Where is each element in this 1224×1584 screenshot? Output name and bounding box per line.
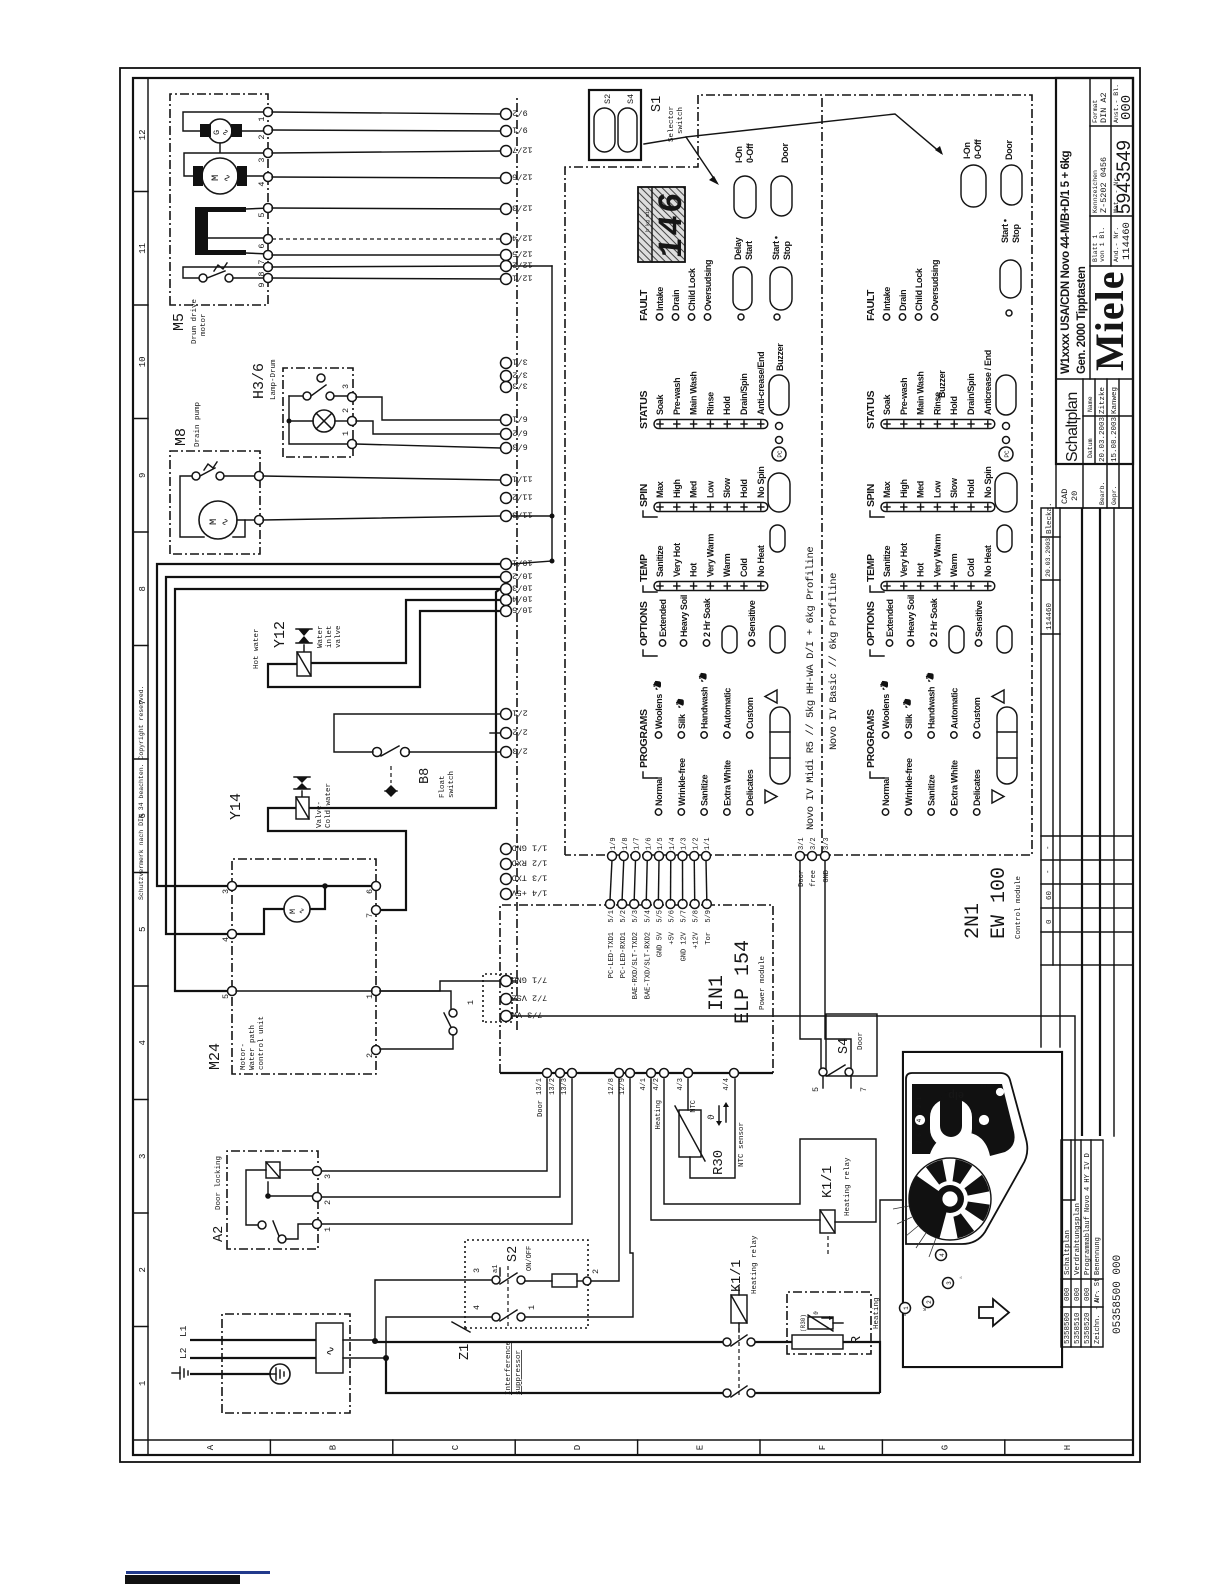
elp circled position numbers (900, 1303, 911, 1314)
scan artifact blue line (126, 1571, 270, 1574)
svg-text:ϑ: ϑ (706, 1114, 717, 1120)
svg-text:1: 1 (527, 1305, 537, 1310)
Y14 valve seat symbol (301, 791, 303, 796)
panel 2 I-On button (961, 165, 986, 207)
Z1 filter box (316, 1323, 343, 1373)
panel 1 door button (771, 176, 792, 216)
panel 2 Novo IV Basic SPIN scale capsule (881, 503, 995, 512)
panel 1 Novo IV Midi program select button (770, 707, 790, 784)
S1 arrow to panel 1 (644, 137, 717, 183)
svg-text:PC: PC (1004, 450, 1011, 458)
B8 float link dashed (390, 766, 392, 783)
control module boundary dash-dot bus line (516, 95, 518, 1030)
svg-text:Gepr.: Gepr. (1111, 485, 1118, 505)
wire M8 to 11/1 (263, 476, 500, 480)
svg-text:H3/6: H3/6 (251, 363, 268, 399)
H3/6 pin circles 3 2 1 (348, 393, 357, 402)
svg-text:4: 4 (221, 937, 231, 942)
svg-text:Cold: Cold (966, 558, 976, 577)
S1 box (589, 90, 641, 160)
M8 box (170, 451, 260, 554)
wire H3/6 pin1 internal (289, 421, 349, 444)
svg-text:8: 8 (138, 586, 148, 591)
svg-text:Automatic: Automatic (722, 688, 732, 729)
svg-text:E: E (696, 1445, 706, 1450)
svg-text:12/5: 12/5 (512, 249, 532, 259)
svg-text:Float: Float (439, 775, 447, 798)
svg-text:2/2: 2/2 (512, 727, 527, 737)
svg-text:Z1: Z1 (458, 1344, 473, 1360)
svg-text:M5: M5 (171, 313, 188, 331)
svg-text:11/2: 11/2 (512, 492, 532, 502)
svg-text:Handwash: Handwash (700, 687, 710, 729)
svg-text:12/8: 12/8 (608, 1078, 616, 1095)
svg-text:2: 2 (257, 134, 267, 139)
svg-text:Blatt 1: Blatt 1 (1092, 235, 1099, 262)
svg-text:Child Lock: Child Lock (914, 267, 924, 311)
svg-text:Rinse: Rinse (705, 392, 715, 415)
svg-text:No Spin: No Spin (983, 466, 993, 498)
svg-text:Silk: Silk (677, 713, 687, 729)
junction dot M24 (322, 883, 328, 889)
border inner frame (133, 78, 1133, 1455)
panel 1 Novo IV Midi OPTIONS button 1 (722, 626, 737, 653)
svg-text:1/2: 1/2 (692, 837, 700, 850)
stator field winding block (195, 207, 208, 255)
svg-text:3: 3 (221, 889, 231, 894)
elp pointer whiskers (929, 1238, 936, 1257)
svg-text:BAE-RXD/SLT-TXD2: BAE-RXD/SLT-TXD2 (632, 932, 640, 999)
title block horizontal divider (1089, 78, 1091, 379)
svg-text:Valve-: Valve- (316, 801, 324, 828)
svg-text:1/7: 1/7 (634, 837, 642, 850)
svg-text:∿: ∿ (221, 129, 231, 136)
svg-text:11/3: 11/3 (512, 510, 532, 520)
svg-text:Med: Med (689, 481, 699, 498)
svg-text:Motor-: Motor- (240, 1043, 248, 1070)
panel 2 Novo IV Basic PROGRAMS column 1 (882, 809, 888, 815)
svg-text:20.03.2003: 20.03.2003 (1099, 416, 1107, 462)
svg-text:Very Warm: Very Warm (705, 534, 715, 577)
svg-text:Door: Door (780, 143, 790, 163)
svg-text:K1/1: K1/1 (821, 1166, 836, 1198)
svg-text:Heavy Soil: Heavy Soil (906, 595, 916, 637)
M1 pump motor circle in M24 (284, 896, 310, 922)
svg-text:Power module: Power module (759, 956, 767, 1010)
wire R30 to 4/4 (690, 1079, 735, 1178)
svg-text:3: 3 (341, 384, 351, 389)
S4 stub wires (822, 1076, 824, 1088)
svg-text:Woolens: Woolens (881, 694, 891, 729)
S2 upper switch contact 3 (492, 1276, 500, 1284)
svg-text:Buzzer: Buzzer (937, 370, 947, 398)
svg-text:B8: B8 (418, 768, 433, 784)
svg-text:Door: Door (857, 1032, 865, 1050)
elp PCB black traces (912, 1084, 1015, 1156)
svg-text:Cold water: Cold water (325, 783, 333, 828)
svg-text:Buzzer: Buzzer (775, 343, 785, 371)
svg-text:Hot: Hot (689, 563, 699, 577)
border outer frame (120, 68, 1140, 1462)
panel display box dash-dot outline (565, 95, 1032, 855)
wire 7/3 VW heater sense (512, 1016, 1075, 1342)
svg-text:M24: M24 (207, 1043, 224, 1070)
svg-text:Heating relay: Heating relay (751, 1235, 759, 1294)
tacho brush bottom (231, 124, 242, 137)
svg-text:CAD: CAD (1060, 489, 1070, 504)
wire net line supply 12/2-11/3-10/1 (512, 265, 552, 267)
svg-text:M: M (208, 519, 220, 525)
svg-text:EW 100: EW 100 (988, 867, 1011, 939)
svg-text:Anticrease / End: Anticrease / End (983, 350, 993, 415)
svg-text:Door: Door (1004, 140, 1014, 160)
svg-text:1: 1 (138, 1381, 148, 1386)
heater contact pair lower (723, 1389, 731, 1397)
svg-text:Control module: Control module (1015, 876, 1023, 939)
panel 1 Novo IV Midi OPTIONS button 2 (770, 626, 785, 653)
S2 fuse (552, 1274, 577, 1287)
S1 button S2 (594, 108, 615, 152)
svg-text:146: 146 (654, 189, 692, 260)
svg-text:Extra White: Extra White (949, 760, 959, 806)
connector 10/x group on bus (501, 559, 512, 570)
svg-text:Novo IV Midi R5 // 5kg HH-WA: Novo IV Midi R5 // 5kg HH-WA D/I + 6kg P… (805, 547, 817, 830)
A2 box (227, 1151, 318, 1249)
svg-text:7/2 VSZ: 7/2 VSZ (512, 993, 548, 1003)
IN1 right edge connectors 5/1-5/9 (606, 900, 615, 909)
svg-text:+12V: +12V (693, 931, 701, 949)
svg-text:4: 4 (939, 1253, 946, 1257)
wire L1 heater feed (375, 1341, 723, 1343)
wire serial link 5/2 (622, 860, 624, 900)
K1/1 coil actuation stub dashed (827, 1233, 829, 1254)
connector 6/x group on bus (501, 415, 512, 426)
svg-text:Selector: Selector (668, 106, 676, 142)
svg-text:High: High (899, 479, 909, 498)
svg-text:Pre-wash: Pre-wash (899, 378, 909, 415)
svg-text:elp: elp (948, 1089, 964, 1101)
svg-text:Stop: Stop (1011, 224, 1021, 243)
svg-text:inlet: inlet (326, 625, 334, 648)
frame letter strip divider (133, 1439, 1133, 1441)
svg-text:Delicates: Delicates (972, 769, 982, 806)
wire M5 pin7 to stator (246, 253, 269, 254)
svg-text:G: G (940, 1445, 950, 1450)
svg-text:Y14: Y14 (228, 793, 245, 820)
svg-text:2 Hr Soak: 2 Hr Soak (702, 597, 712, 637)
svg-text:switch: switch (448, 771, 456, 798)
svg-text:∿: ∿ (222, 174, 233, 182)
svg-text:h kg min: h kg min (645, 208, 651, 232)
panel 1 Novo IV Midi STATUS scale capsule (654, 420, 768, 429)
wire A2 pin3 to 13/1 (322, 1079, 547, 1171)
svg-text:Intake: Intake (882, 287, 892, 311)
panel 1 Novo IV Midi SPIN button (768, 473, 790, 512)
svg-text:Sanitize: Sanitize (882, 545, 892, 577)
svg-text:OPTIONS: OPTIONS (638, 601, 650, 646)
svg-text:13/1: 13/1 (536, 1078, 544, 1095)
svg-text:000: 000 (1064, 1287, 1072, 1301)
S2 box dotted (465, 1240, 588, 1328)
svg-text:6/3: 6/3 (512, 442, 527, 452)
motor brush bottom (237, 166, 247, 186)
wire 10/3 to M24 pin5 (175, 589, 500, 991)
svg-text:5: 5 (221, 994, 231, 999)
svg-text:L2: L2 (178, 1347, 189, 1359)
S2 pin 2 circle (583, 1277, 591, 1285)
svg-text:7: 7 (859, 1087, 869, 1092)
svg-text:1/6: 1/6 (645, 837, 653, 850)
svg-text:1/9: 1/9 (610, 837, 618, 850)
svg-text:12/7: 12/7 (512, 145, 532, 155)
svg-text:Datum: Datum (1087, 438, 1094, 458)
svg-text:PROGRAMS: PROGRAMS (638, 709, 650, 768)
svg-text:2: 2 (323, 1200, 333, 1205)
svg-text:2/1: 2/1 (512, 708, 527, 718)
svg-text:Drain: Drain (671, 290, 681, 311)
A2 pin circles 3 2 1 (313, 1167, 322, 1176)
svg-text:4: 4 (138, 1040, 148, 1045)
M24 box (232, 859, 376, 1074)
svg-text:No Heat: No Heat (983, 545, 993, 577)
wire serial link 5/7 (682, 860, 684, 900)
wire Y14 to M24 pin7 (268, 808, 406, 910)
svg-text:Extended: Extended (885, 599, 895, 637)
wire R element to return (843, 1342, 880, 1393)
panel 2 Novo IV Basic OPTIONS items (886, 640, 892, 646)
svg-text:4/1: 4/1 (640, 1078, 648, 1091)
svg-text:High: High (672, 479, 682, 498)
A2 junction dot (265, 1193, 271, 1199)
shaft link tacho to motor (219, 143, 221, 152)
junction dot L1 (372, 1338, 378, 1344)
svg-text:Low: Low (705, 480, 715, 498)
scan artifact black bar (125, 1575, 240, 1584)
svg-text:1: 1 (466, 1000, 476, 1005)
svg-text:Hot water: Hot water (253, 628, 261, 669)
svg-text:FAULT: FAULT (638, 289, 650, 321)
svg-text:1: 1 (365, 994, 375, 999)
svg-text:1/4 +5V: 1/4 +5V (511, 888, 548, 898)
svg-text:Blecka.: Blecka. (1046, 502, 1054, 534)
svg-text:Benennung: Benennung (1094, 1237, 1102, 1275)
wire serial link 5/5 (657, 860, 660, 900)
elp door lock picture box (903, 1052, 1062, 1367)
svg-text:STATUS: STATUS (865, 391, 877, 429)
svg-text:IN1: IN1 (706, 975, 729, 1011)
wire L2 heater return (386, 1358, 723, 1393)
svg-text:60: 60 (1046, 890, 1054, 900)
svg-text:TEMP: TEMP (865, 554, 877, 582)
S2 gang link dashed (507, 1266, 509, 1326)
svg-text:Custom: Custom (745, 697, 755, 729)
wire Y12 to 10/5 (268, 611, 500, 687)
svg-text:Low: Low (932, 480, 942, 498)
svg-text:ω: ω (922, 1308, 928, 1311)
svg-text:5358520: 5358520 (1084, 1312, 1092, 1344)
K1/1 actuation dashed link (738, 1323, 740, 1395)
svg-text:Door locking: Door locking (215, 1156, 223, 1210)
svg-text:S4: S4 (626, 94, 636, 104)
svg-text:Soak: Soak (655, 394, 665, 415)
svg-text:1/1 GND: 1/1 GND (512, 843, 548, 853)
revision table row extensions toward parts table (1040, 965, 1042, 1047)
svg-text:1/3: 1/3 (681, 837, 689, 850)
revision table rows (1052, 508, 1054, 965)
svg-text:(R30): (R30) (800, 1314, 807, 1332)
wire M5 pin4 to motor (247, 175, 269, 177)
wire lower contact to return (755, 1392, 880, 1394)
earth symbol glyph (179, 1367, 181, 1379)
wire 2/2 stub (490, 732, 500, 734)
svg-text:7 6 5 4 3 2 1: 7 6 5 4 3 2 1 (916, 1097, 923, 1144)
svg-text:-: - (1045, 845, 1053, 850)
wire serial link 5/8 (693, 860, 695, 900)
M5 pin circles 1-9 (264, 108, 273, 117)
svg-text:SPIN: SPIN (865, 484, 877, 507)
wire L2 into filter (190, 1357, 316, 1359)
svg-text:H: H (1063, 1445, 1073, 1450)
wire M5 pin9 to thermal switch (233, 277, 269, 279)
svg-text:OPTIONS: OPTIONS (865, 601, 877, 646)
svg-text:3/1: 3/1 (512, 357, 527, 367)
R heating element (792, 1335, 843, 1349)
wire motor M1 to net (310, 886, 325, 909)
svg-text:Name: Name (1087, 396, 1094, 412)
wire L2 out of filter to dot (343, 1357, 386, 1359)
svg-text:Kennzeichen: Kennzeichen (1092, 170, 1099, 213)
svg-text:Hot: Hot (916, 563, 926, 577)
svg-text:Miele: Miele (1087, 271, 1132, 372)
svg-text:12/1: 12/1 (512, 273, 532, 283)
svg-text:Z-5202 0456: Z-5202 0456 (1099, 157, 1109, 213)
wire serial link 5/3 (634, 860, 635, 900)
svg-text:B: B (328, 1444, 338, 1450)
svg-text:∿: ∿ (299, 908, 307, 914)
svg-text:10/5: 10/5 (512, 605, 532, 615)
svg-text:Warm: Warm (949, 553, 959, 577)
svg-text:1: 1 (341, 431, 351, 436)
tacho brush top (200, 124, 211, 137)
motor brush top (193, 166, 203, 186)
svg-text:Start •: Start • (771, 236, 781, 260)
svg-text:M: M (288, 909, 298, 914)
svg-text:1/1: 1/1 (704, 837, 712, 850)
wires M5 pins to bus connectors (272, 112, 500, 114)
S1 button S4 (618, 108, 637, 152)
svg-text:ϑ: ϑ (813, 1311, 820, 1315)
wire H3/6 pin2 to 6/2 (356, 421, 500, 434)
svg-text:4200253: 4200253 (981, 1082, 1000, 1088)
svg-text:I-On: I-On (962, 142, 972, 159)
svg-text:Extended: Extended (658, 599, 668, 637)
svg-text:BAE-TXD/SLT-RXD2: BAE-TXD/SLT-RXD2 (644, 932, 652, 999)
svg-text:5: 5 (257, 212, 267, 217)
svg-text:Y12: Y12 (272, 621, 289, 648)
svg-text:000: 000 (1119, 95, 1135, 120)
panel connectors 3/1 3/2 3/3 door (796, 852, 805, 861)
panel 2 Novo IV Basic buzzer button (996, 375, 1016, 415)
svg-text:♨: ♨ (958, 1276, 964, 1279)
wire A2 pin1 to 13/3 (322, 1079, 572, 1224)
panel 1 display window (638, 187, 685, 262)
svg-text:Heavy Soil: Heavy Soil (679, 595, 689, 637)
svg-text:3: 3 (138, 1154, 148, 1159)
svg-text:5/6: 5/6 (669, 910, 677, 923)
svg-text:Normal: Normal (654, 777, 664, 806)
svg-text:Anti-crease/End: Anti-crease/End (756, 352, 766, 415)
svg-text:A: A (206, 1444, 216, 1450)
panel 1 Novo IV Midi OPTIONS items (659, 640, 665, 646)
panel 1 I-On button (734, 176, 756, 218)
IN1 left edge connectors 13/x 12/x 4/x (543, 1069, 552, 1078)
svg-text:4/2: 4/2 (653, 1078, 661, 1091)
A2 coil (266, 1162, 280, 1178)
svg-text:Schaltplan: Schaltplan (1064, 392, 1081, 462)
svg-text:2: 2 (591, 1269, 601, 1274)
wire Y14 to 10/3 (309, 589, 500, 808)
svg-text:3/3: 3/3 (512, 381, 527, 391)
connector 1/x serial group on bus (501, 844, 512, 855)
junction dot L2 (383, 1355, 389, 1361)
svg-text:114460: 114460 (1046, 602, 1054, 630)
svg-text:Soak: Soak (882, 394, 892, 415)
frame number strip divider (147, 78, 149, 1455)
junction dot 11/3 (550, 514, 555, 519)
wire 4/1 to K1/1 coil (651, 1079, 820, 1220)
M5 connector group on bus (501, 109, 512, 120)
title block Schaltplan cell (1056, 378, 1133, 380)
svg-text:9/2: 9/2 (512, 108, 527, 118)
svg-text:valve: valve (335, 625, 343, 648)
M24 top pin circles 3 4 5 (228, 882, 237, 891)
svg-text:0-Off: 0-Off (973, 138, 983, 159)
svg-text:Pre-wash: Pre-wash (672, 378, 682, 415)
panel 2 Novo IV Basic TEMP scale capsule (881, 582, 995, 591)
svg-text:4/4: 4/4 (723, 1078, 731, 1091)
svg-text:12/9: 12/9 (619, 1078, 627, 1095)
title block outline (1056, 78, 1133, 464)
svg-text:Drain pump: Drain pump (194, 402, 202, 447)
M8 motor circle (199, 501, 237, 539)
Z1 earth circle (270, 1364, 290, 1384)
svg-text:STATUS: STATUS (638, 391, 650, 429)
svg-text:Slow: Slow (949, 477, 959, 498)
junction dot 10/1 (550, 559, 555, 564)
svg-text:TEMP: TEMP (638, 554, 650, 582)
svg-text:5943549: 5943549 (1114, 140, 1135, 214)
svg-text:a1: a1 (492, 1265, 500, 1273)
svg-text:3/1: 3/1 (798, 837, 806, 850)
svg-text:Drain: Drain (898, 290, 908, 311)
revision table small cells 0 60 - - (1041, 931, 1133, 933)
svg-text:Heating relay: Heating relay (844, 1157, 852, 1216)
svg-text:M: M (210, 175, 222, 181)
svg-text:15.08.2003: 15.08.2003 (1111, 416, 1119, 462)
svg-text:5/1: 5/1 (608, 910, 616, 923)
svg-text:05358500 000: 05358500 000 (1112, 1255, 1124, 1334)
panel 2 Novo IV Basic program select triangles (992, 790, 1004, 803)
panel 1 Novo IV Midi service circles (776, 437, 783, 444)
svg-text:Automatic: Automatic (949, 688, 959, 729)
M24 internal switch (449, 1009, 457, 1017)
svg-text:7: 7 (365, 913, 375, 918)
wire R sensor stub (833, 1322, 843, 1324)
panel 1 start stop button (770, 267, 792, 310)
wire 4/2 to K1/1 coil loop (664, 1079, 876, 1222)
elp lock outline (906, 1073, 1027, 1244)
panel 2 status circle (1006, 310, 1012, 316)
